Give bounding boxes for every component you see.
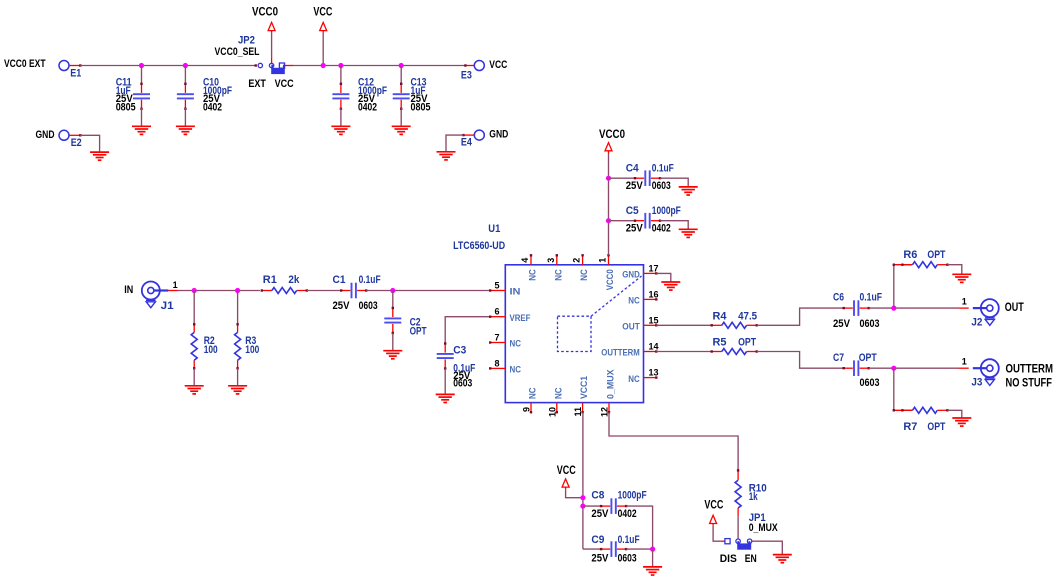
svg-text:0603: 0603 (860, 318, 880, 330)
svg-text:C3: C3 (453, 345, 466, 357)
capacitor C11 (133, 83, 150, 110)
junction VCC drop (321, 63, 326, 68)
power symbol VCC0 (JP2) (268, 22, 275, 32)
terminal E4 GND (474, 130, 484, 140)
svg-text:0.1uF: 0.1uF (860, 291, 883, 303)
svg-text:DIS: DIS (720, 553, 737, 565)
svg-text:0.1uF: 0.1uF (652, 162, 674, 174)
value OPT of R5 (738, 336, 756, 348)
wire C3 to ground (444, 369, 446, 395)
jumper JP1 shunt on EN position (737, 541, 751, 550)
ground at pin 17 (661, 282, 680, 290)
capacitor C5 (634, 213, 661, 229)
capacitor C3 (437, 342, 454, 369)
jumper JP2 shunt on VCC position (271, 65, 285, 74)
svg-text:VCC0_SEL: VCC0_SEL (215, 46, 260, 58)
voltage 25V of C3 (453, 370, 471, 382)
svg-text:R4: R4 (713, 310, 728, 322)
pin 5 stub of U1 (489, 289, 505, 291)
pin 11 stub of U1 (581, 403, 583, 414)
ground under C13 (392, 126, 411, 134)
svg-text:25V: 25V (591, 552, 609, 564)
voltage 25V of C1 (333, 300, 351, 312)
capacitor C9 (600, 541, 627, 557)
pin name IN (pin 5) of U1 (510, 287, 521, 298)
refdes R4 (713, 310, 728, 322)
svg-text:25V: 25V (591, 508, 609, 520)
ground at R6 (952, 274, 971, 282)
stub R10 top lead (737, 469, 739, 480)
refdes C5 (626, 205, 639, 217)
terminal E1 VCC0 EXT (59, 61, 69, 71)
pin number 7 of U1 (494, 333, 499, 343)
wire R5 to C7 (757, 352, 844, 369)
wire JP1 EN to ground (752, 541, 783, 554)
wire VCC arrow to VCC1 (566, 489, 583, 497)
package 0603 of C3 (453, 378, 472, 390)
svg-text:E3: E3 (461, 69, 472, 81)
wire C4 to ground (660, 178, 688, 187)
svg-text:NC: NC (528, 387, 539, 399)
svg-text:OUT: OUT (1005, 302, 1024, 314)
svg-text:25V: 25V (833, 318, 851, 330)
svg-text:VCC0 EXT: VCC0 EXT (4, 58, 46, 70)
package 0402 of C12 (358, 101, 377, 113)
value 0.1uF of C4 (652, 162, 674, 174)
connector J3 OUTTERM (973, 359, 999, 385)
value 1000pF of C10 (203, 85, 232, 97)
package 0402 of C5 (652, 223, 671, 235)
position label DIS (720, 553, 737, 565)
net label VCC (313, 7, 332, 19)
pin end dot at JP2 EXT (255, 64, 257, 66)
pin name OUTTERM (pin 14) of U1 (601, 348, 640, 359)
wire E4 to ground (446, 135, 463, 152)
wire pin 12 to R10 (609, 412, 738, 470)
position label EXT (248, 78, 266, 90)
pin number 8 of U1 (494, 358, 499, 368)
svg-text:EXT: EXT (248, 78, 266, 90)
refdes U1 (488, 223, 500, 235)
svg-text:IN: IN (124, 284, 133, 296)
svg-text:16: 16 (649, 289, 659, 299)
refdes C3 (453, 345, 466, 357)
wire C12 to ground (340, 108, 342, 126)
svg-text:2k: 2k (288, 274, 300, 286)
power symbol VCC0 (U1) (605, 143, 612, 153)
resistor R7 (901, 407, 948, 413)
refdes C11 (116, 77, 132, 89)
capacitor C4 (634, 170, 661, 186)
value OPT of R7 (927, 421, 945, 433)
svg-text:NC: NC (628, 296, 640, 307)
pin name 0_MUX (pin 12) of U1 (606, 369, 617, 399)
svg-text:GND: GND (489, 129, 508, 141)
package 0603 of C9 (618, 552, 637, 564)
wire VCC0 arrow to pin 1 (608, 153, 610, 255)
svg-text:0402: 0402 (618, 508, 637, 520)
refdes R7 (903, 421, 917, 433)
svg-text:C1: C1 (333, 274, 346, 286)
svg-text:C4: C4 (626, 162, 640, 174)
connector J2 OUT (973, 299, 999, 325)
refdes C4 (626, 162, 640, 174)
svg-text:VCC0: VCC0 (599, 129, 625, 141)
capacitor C7 (843, 360, 870, 376)
net label VCC (704, 499, 723, 511)
wire R3 to ground (237, 368, 239, 386)
refdes C6 (833, 291, 844, 303)
value 0.1uF of C6 (860, 291, 883, 303)
pin 6 stub of U1 (489, 316, 505, 318)
voltage 25V of C6 (833, 318, 851, 330)
pin number 1 of J1 (173, 280, 178, 290)
svg-text:C7: C7 (833, 352, 844, 364)
wire C6 to J2 (869, 307, 959, 309)
position label VCC (jumper) (275, 78, 294, 90)
svg-text:0402: 0402 (652, 223, 671, 235)
svg-text:1: 1 (962, 297, 967, 307)
wire R2 to ground (193, 368, 195, 386)
svg-text:J3: J3 (971, 377, 982, 389)
svg-text:NC: NC (510, 339, 522, 350)
ground under R2 (185, 386, 204, 394)
svg-text:1: 1 (598, 258, 608, 263)
svg-text:NC: NC (579, 269, 590, 281)
package 0402 of C10 (203, 101, 222, 113)
jumper JP1 DIS pin square pad (725, 539, 730, 544)
ground at JP1 (773, 555, 792, 563)
voltage 25V of C10 (203, 93, 221, 105)
svg-text:OPT: OPT (859, 352, 877, 364)
net label OUT (1005, 302, 1024, 314)
refdes R1 (263, 274, 277, 286)
pin name VCC0 (pin 1) of U1 (605, 269, 616, 290)
svg-text:E4: E4 (461, 137, 473, 149)
refdes J2 (971, 317, 982, 329)
svg-text:VCC1: VCC1 (579, 375, 590, 399)
svg-text:OUTTERM: OUTTERM (1006, 364, 1054, 376)
wire R1 to C1 (307, 290, 341, 292)
svg-text:OPT: OPT (410, 325, 427, 337)
refdes R10 (749, 482, 767, 494)
svg-text:25V: 25V (626, 223, 644, 235)
value 2k of R1 (288, 274, 300, 286)
refdes C8 (591, 490, 604, 502)
ground under R3 (228, 386, 247, 394)
svg-text:6: 6 (494, 307, 499, 317)
net label VCC (557, 465, 576, 477)
svg-text:0.1uF: 0.1uF (359, 274, 381, 286)
pin name NC (pin 10) of U1 (553, 387, 564, 399)
svg-text:IN: IN (510, 287, 521, 298)
svg-text:3: 3 (546, 258, 556, 263)
refdes E4 (461, 137, 473, 149)
svg-text:LTC6560-UD: LTC6560-UD (453, 240, 505, 252)
pin number 11 of U1 (573, 407, 583, 417)
value OPT of R6 (927, 249, 945, 261)
svg-text:25V: 25V (626, 180, 644, 192)
svg-text:VCC: VCC (489, 59, 507, 71)
voltage 25V of C8 (591, 508, 609, 520)
package 0603 of C4 (652, 180, 671, 192)
ground at E4 (437, 152, 456, 160)
svg-text:0_MUX: 0_MUX (749, 522, 779, 534)
voltage 25V of C13 (411, 93, 429, 105)
svg-text:E2: E2 (71, 137, 82, 149)
capacitor C2 (384, 307, 401, 334)
svg-text:R7: R7 (903, 421, 917, 433)
value 0.1uF of C1 (359, 274, 381, 286)
net label GND (E4) (489, 129, 508, 141)
wire C2 to ground (392, 333, 394, 351)
package 0402 of C8 (618, 508, 637, 520)
svg-text:C6: C6 (833, 291, 844, 303)
wire VCC arrow to rail (322, 33, 324, 66)
pin 2 stub of JP2 VCC pad (284, 65, 286, 67)
net label IN (124, 284, 133, 296)
pin name GND (pin 17) of U1 (622, 270, 640, 281)
package 0603 of C7 (860, 377, 880, 389)
pin 14 stub of U1 (644, 350, 658, 352)
ground under C12 (331, 126, 350, 134)
refdes C7 (833, 352, 844, 364)
resistor R1 (261, 288, 308, 294)
value 1uF of C13 (411, 85, 426, 97)
svg-text:0603: 0603 (453, 378, 472, 390)
refdes C1 (333, 274, 346, 286)
pin number 1 of U1 (598, 258, 608, 263)
svg-text:0603: 0603 (860, 377, 880, 389)
svg-text:VCC: VCC (557, 465, 576, 477)
pin name NC (pin 4) of U1 (528, 269, 539, 281)
value 1000pF of C5 (652, 205, 681, 217)
value 100 of R3 (245, 344, 259, 356)
package 0603 of C1 (359, 300, 378, 312)
svg-text:0_MUX: 0_MUX (606, 369, 617, 399)
svg-text:17: 17 (649, 263, 659, 273)
jumper JP2 VCC pin square pad (279, 63, 284, 68)
pin name NC (pin 9) of U1 (528, 387, 539, 399)
pin 7 stub of U1 (489, 341, 505, 343)
terminal E2 GND (59, 130, 69, 140)
wire C11 to rail (141, 66, 143, 85)
wire C4 row (609, 177, 636, 179)
svg-text:47.5: 47.5 (738, 310, 757, 322)
svg-text:VCC: VCC (275, 78, 294, 90)
wire C7 to J3 (869, 367, 959, 369)
resistor R5 (711, 349, 758, 355)
net label GND (E2) (36, 129, 55, 141)
power symbol VCC (C8) (562, 479, 569, 489)
svg-text:100: 100 (204, 344, 218, 356)
wire C9 to junction (626, 548, 653, 550)
pin 1 stub of J3 (958, 367, 968, 369)
refdes E3 (461, 69, 472, 81)
value OPT of C7 (859, 352, 877, 364)
wire R6 to ground (947, 265, 961, 275)
svg-text:0805: 0805 (411, 101, 431, 113)
svg-text:0603: 0603 (652, 180, 671, 192)
svg-text:OUTTERM: OUTTERM (601, 348, 640, 359)
svg-text:NC: NC (553, 269, 564, 281)
pin 13 stub of U1 (644, 376, 658, 378)
svg-text:11: 11 (573, 407, 583, 417)
capacitor C13 (393, 83, 410, 110)
wire C5 to ground (660, 221, 688, 230)
ground under C9 (643, 567, 662, 575)
wire C9 row (583, 548, 601, 550)
refdes JP1 (749, 512, 766, 524)
junction R6 (891, 306, 896, 311)
pin 17 stub of U1 (644, 272, 658, 274)
pin 1 stub of E2 (69, 134, 82, 136)
ground at E2 (90, 152, 109, 160)
refdes C9 (591, 534, 604, 546)
refdes C2 (410, 317, 421, 329)
pin 2 stub of U1 (581, 254, 583, 265)
wire C10 to rail (184, 66, 186, 85)
svg-text:EN: EN (745, 553, 757, 565)
svg-text:12: 12 (600, 407, 610, 417)
pin name NC (pin 13) of U1 (628, 374, 640, 385)
pin name NC (pin 3) of U1 (553, 269, 564, 281)
pin 4 stub of U1 (530, 254, 532, 265)
wire C10 to ground (184, 108, 186, 126)
svg-text:VREF: VREF (510, 313, 531, 324)
value 1000pF of C8 (618, 490, 647, 502)
exposed pad dashed square of U1 (558, 316, 592, 351)
wire VCC0 arrow to JP2 center pin (271, 33, 273, 57)
svg-text:100: 100 (245, 344, 259, 356)
package 0805 of C11 (116, 101, 136, 113)
svg-text:OPT: OPT (927, 249, 945, 261)
svg-text:0402: 0402 (358, 101, 377, 113)
refdes E1 (70, 68, 81, 80)
svg-text:13: 13 (649, 368, 659, 378)
terminal E3 VCC (474, 61, 484, 71)
svg-text:4: 4 (520, 258, 530, 263)
package 0805 of C13 (411, 101, 431, 113)
pin number 1 of J2 (962, 297, 967, 307)
svg-text:GND: GND (36, 129, 55, 141)
svg-text:C5: C5 (626, 205, 639, 217)
pin 1 stub of J2 (958, 307, 968, 309)
svg-text:0.1uF: 0.1uF (618, 534, 640, 546)
stub R7 left lead (893, 409, 913, 411)
refdes J1 (161, 300, 174, 312)
ground under C3 (436, 394, 455, 402)
resistor R3 (235, 323, 241, 369)
wire R3 drop (237, 291, 239, 325)
ground under C11 (132, 126, 151, 134)
pin number 12 of U1 (600, 407, 610, 417)
pin number 17 of U1 (649, 263, 659, 273)
junction C9 ground (650, 547, 655, 552)
refdes E2 (71, 137, 82, 149)
ground under C4 (679, 187, 698, 195)
svg-text:VCC0: VCC0 (605, 269, 616, 290)
svg-text:0603: 0603 (359, 300, 378, 312)
pin name NC (pin 7) of U1 (510, 339, 522, 350)
pin 1 stub of E1 (69, 64, 82, 66)
stub into JP2 center pin (271, 57, 273, 63)
svg-text:1000pF: 1000pF (652, 205, 681, 217)
value 100 of R2 (204, 344, 218, 356)
ground under C10 (176, 126, 195, 134)
part number LTC6560-UD (453, 240, 505, 252)
svg-text:NC: NC (510, 365, 522, 376)
dashed line pad to GND pin of U1 (591, 276, 642, 316)
svg-text:VCC0: VCC0 (252, 7, 278, 19)
capacitor C8 (600, 498, 627, 514)
pin number 6 of U1 (494, 307, 499, 317)
svg-text:NO STUFF: NO STUFF (1006, 378, 1052, 390)
wire R6 riser (893, 265, 895, 308)
wire C12 to rail (340, 66, 342, 85)
wire R2 drop (193, 291, 195, 325)
wire pin 15 to R4 (656, 324, 711, 326)
capacitor C10 (177, 83, 194, 110)
junction C2 (390, 288, 395, 293)
capacitor C6 (843, 300, 870, 316)
resistor R10 (735, 480, 741, 516)
value 47.5 of R4 (738, 310, 757, 322)
pin 10 stub of U1 (556, 403, 558, 414)
pin 15 stub of U1 (644, 324, 658, 326)
svg-text:7: 7 (494, 333, 499, 343)
wire C13 to ground (400, 108, 402, 126)
refdes R3 (245, 335, 256, 347)
svg-text:OPT: OPT (738, 336, 756, 348)
voltage 25V of C11 (116, 93, 134, 105)
pin name NC (pin 2) of U1 (579, 269, 590, 281)
ground at R7 (952, 418, 971, 426)
pin name OUT (pin 15) of U1 (622, 322, 640, 333)
pin number 9 of U1 (522, 407, 532, 412)
svg-text:2: 2 (572, 258, 582, 263)
wire VREF to C3 (445, 317, 490, 344)
wire C8 to right rail (626, 506, 653, 549)
svg-text:J2: J2 (971, 317, 982, 329)
stub JP2 pad to rail (285, 65, 294, 67)
capacitor C12 (332, 83, 349, 110)
wire C5 row (609, 220, 636, 222)
pin 1 stub of J1 (168, 290, 178, 292)
jumper JP2 EXT pin circle (258, 63, 262, 67)
svg-text:C9: C9 (591, 534, 604, 546)
value 1000pF of C12 (358, 85, 387, 97)
svg-text:OUT: OUT (622, 322, 640, 333)
wire JP2 to E3 (294, 65, 466, 67)
svg-text:1000pF: 1000pF (618, 490, 647, 502)
resistor R2 (191, 323, 197, 369)
value 0_MUX of JP1 (749, 522, 779, 534)
svg-text:VCC: VCC (704, 499, 723, 511)
wire pin 17 to ground (656, 273, 671, 282)
stub R6 left lead (893, 264, 913, 266)
jumper JP1 EN pin circle (747, 539, 751, 543)
svg-text:E1: E1 (70, 68, 81, 80)
junction R2 (192, 288, 197, 293)
value 0.1uF of C3 (453, 362, 475, 374)
refdes C13 (411, 77, 427, 89)
pin 9 stub of U1 (530, 403, 532, 414)
pin number 10 of U1 (547, 407, 557, 417)
refdes R5 (713, 336, 727, 348)
net label VCC0 (252, 7, 278, 19)
pin number 16 of U1 (649, 289, 659, 299)
